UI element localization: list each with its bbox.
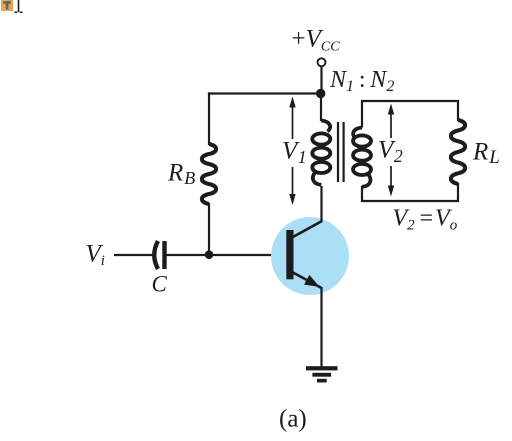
text cursor	[15, 0, 23, 12]
transistor Q1 emitter lead	[292, 272, 322, 288]
arrow V2	[378, 104, 404, 197]
wire VCC to node	[320, 67, 322, 92]
text tool icon	[1, 0, 13, 11]
wire top rail from RB top to VCC node	[208, 92, 321, 94]
output loop top rail	[361, 100, 459, 102]
transistor Q1 highlight	[271, 217, 349, 295]
transformer secondary winding	[353, 128, 371, 187]
VCC terminal circle	[318, 58, 326, 66]
ground	[306, 366, 338, 382]
transformer primary winding	[312, 121, 330, 185]
transformer secondary bottom wire	[361, 186, 363, 202]
transistor Q1 collector lead	[292, 221, 322, 238]
transistor Q1 emitter arrow	[304, 275, 320, 287]
output loop right wire upper	[457, 100, 459, 121]
transformer secondary top wire	[361, 100, 363, 128]
node base junction	[205, 250, 214, 259]
arrow V1	[281, 97, 307, 206]
wire emitter to ground	[320, 287, 322, 368]
transformer primary top wire	[320, 92, 322, 121]
svg-text:C: C	[152, 272, 168, 297]
wire RB branch upper	[208, 92, 210, 145]
output loop bottom rail	[361, 200, 459, 202]
transformer core	[338, 122, 344, 182]
resistor RB	[202, 144, 216, 204]
svg-text:V2 = Vo: V2 = Vo	[393, 206, 458, 234]
wire collector up to transformer primary	[320, 186, 322, 222]
node VCC junction	[316, 89, 325, 98]
wire RB branch lower	[208, 203, 210, 255]
resistor RL	[451, 120, 465, 184]
wire capacitor to base	[165, 254, 287, 256]
transistor Q1 base bar	[286, 230, 293, 279]
capacitor C	[154, 241, 164, 269]
svg-text:N1 : N2: N1 : N2	[329, 67, 394, 95]
output loop right wire lower	[457, 183, 459, 202]
wire input to capacitor	[114, 254, 156, 256]
svg-text:(a): (a)	[279, 406, 307, 433]
